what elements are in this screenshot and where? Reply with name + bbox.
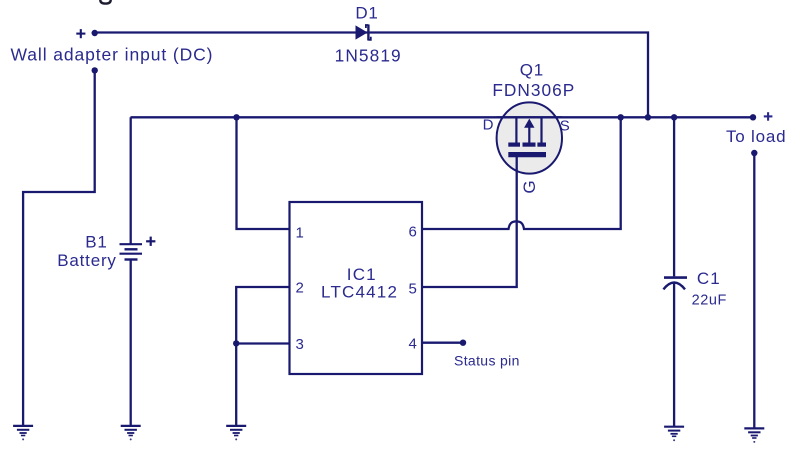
svg-text:C1: C1	[697, 269, 721, 288]
svg-text:Q1: Q1	[520, 60, 544, 79]
svg-text:4: 4	[409, 336, 417, 353]
svg-text:Battery: Battery	[57, 251, 116, 270]
svg-text:Status pin: Status pin	[454, 353, 520, 369]
svg-text:IC1: IC1	[347, 265, 377, 284]
svg-text:LTC4412: LTC4412	[321, 283, 398, 302]
svg-text:FDN306P: FDN306P	[492, 80, 575, 100]
svg-text:D: D	[483, 117, 494, 134]
svg-text:B1: B1	[85, 232, 107, 251]
svg-text:6: 6	[409, 224, 417, 241]
svg-text:To load: To load	[726, 127, 786, 146]
svg-text:22uF: 22uF	[692, 292, 727, 308]
svg-text:Wall adapter input (DC): Wall adapter input (DC)	[11, 44, 214, 64]
svg-text:3: 3	[296, 336, 304, 353]
svg-text:1N5819: 1N5819	[335, 46, 402, 66]
svg-text:G: G	[520, 180, 539, 193]
svg-text:2: 2	[296, 279, 304, 296]
svg-text:D1: D1	[355, 3, 378, 22]
svg-text:1: 1	[296, 225, 304, 242]
svg-text:5: 5	[409, 281, 417, 298]
